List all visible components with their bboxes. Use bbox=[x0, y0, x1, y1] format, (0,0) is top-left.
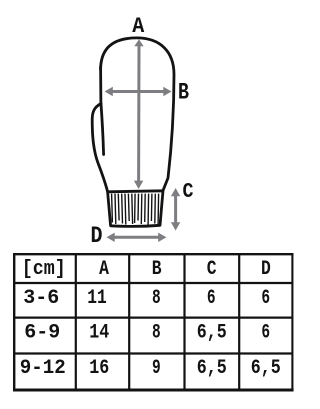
svg-text:6-9: 6-9 bbox=[24, 321, 60, 344]
svg-text:6,5: 6,5 bbox=[197, 321, 227, 344]
table inner horizontal lines bbox=[14, 283, 293, 354]
mitten left main edge bbox=[99, 67, 102, 104]
svg-text:9: 9 bbox=[152, 357, 161, 380]
cuff outline bbox=[108, 191, 163, 227]
svg-text:D: D bbox=[261, 258, 271, 281]
svg-text:8: 8 bbox=[152, 321, 161, 344]
arrow D (cuff width) bbox=[107, 233, 167, 242]
svg-text:C: C bbox=[207, 258, 217, 281]
arrow C (cuff height) bbox=[171, 188, 180, 231]
thumb bbox=[92, 104, 107, 192]
svg-text:6: 6 bbox=[207, 287, 216, 310]
svg-text:A: A bbox=[99, 258, 109, 281]
svg-text:6: 6 bbox=[261, 287, 270, 310]
svg-text:6,5: 6,5 bbox=[197, 357, 227, 380]
svg-text:8: 8 bbox=[152, 287, 161, 310]
cuff ribbing bbox=[112, 194, 159, 225]
mitten inner palm edge bbox=[101, 104, 104, 155]
svg-text:A: A bbox=[132, 14, 145, 39]
svg-text:11: 11 bbox=[87, 287, 107, 310]
svg-text:D: D bbox=[91, 223, 103, 250]
arrow B (horizontal measurement) bbox=[105, 87, 172, 96]
svg-text:6: 6 bbox=[261, 321, 270, 344]
svg-text:3-6: 3-6 bbox=[23, 287, 59, 310]
table outer border bbox=[13, 253, 294, 391]
svg-text:6,5: 6,5 bbox=[251, 357, 281, 380]
svg-text:C: C bbox=[183, 181, 194, 204]
svg-text:[cm]: [cm] bbox=[22, 258, 66, 281]
arrow A (vertical measurement) bbox=[134, 39, 144, 189]
svg-text:16: 16 bbox=[89, 357, 109, 380]
svg-text:14: 14 bbox=[89, 321, 109, 344]
table inner vertical lines bbox=[76, 254, 239, 390]
svg-text:B: B bbox=[178, 80, 189, 106]
svg-text:9-12: 9-12 bbox=[20, 357, 66, 380]
mitten dome and right edge bbox=[101, 38, 174, 191]
svg-text:B: B bbox=[152, 258, 162, 281]
